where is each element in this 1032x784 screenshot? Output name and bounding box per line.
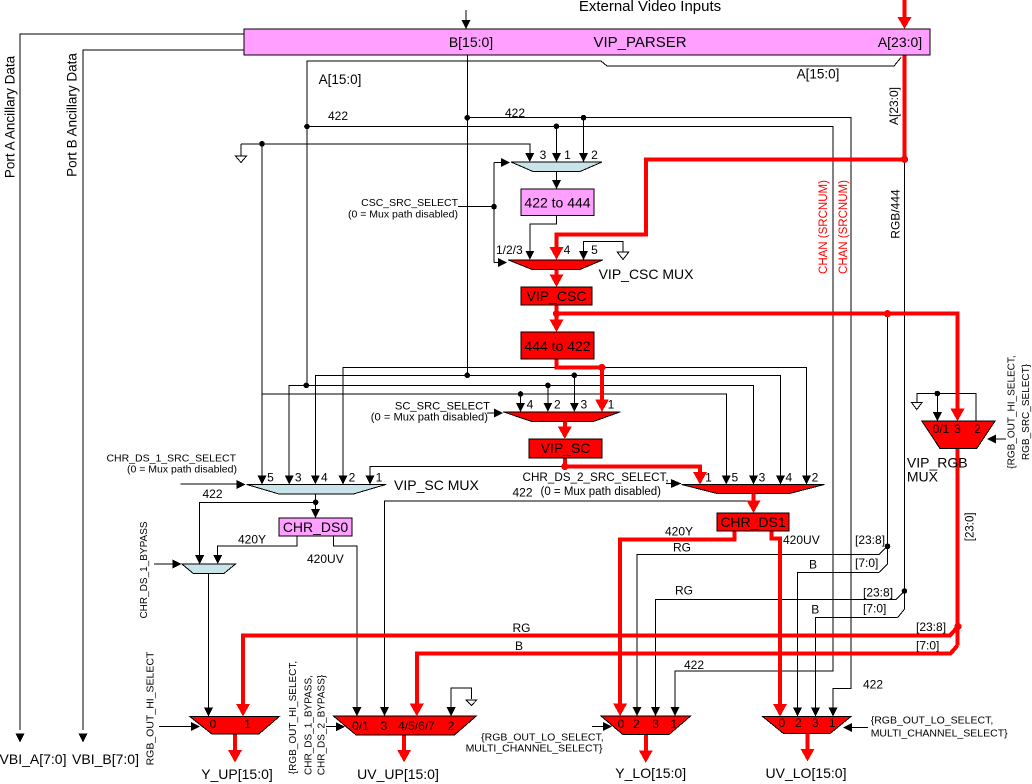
arrow UV_UP input 0/1 [352,707,361,716]
svg-text:(0 = Mux path disabled): (0 = Mux path disabled) [127,464,237,476]
block VIP_SC [529,439,602,458]
svg-text:CHR_DS_1_BYPASS: CHR_DS_1_BYPASS [139,521,150,618]
svg-text:VBI_B[7:0]: VBI_B[7:0] [72,751,139,767]
wire A[15:0] bus from parser [307,58,901,386]
wire VIP_CSC MUX input 5 ground bracket [584,242,624,252]
svg-text:2: 2 [591,148,598,162]
svg-text:RGB/444: RGB/444 [889,189,903,239]
wire External Video Input B into parser [465,10,467,21]
node ground line junction [259,141,265,147]
mux CHR_DS_2 source mux (red) [682,485,825,494]
svg-text:4/5/6/7: 4/5/6/7 [398,719,435,733]
node red parser junction [901,156,908,163]
svg-text:422: 422 [505,106,525,120]
wire RGB_OUT_HI_SELECT select line Y_UP [159,726,193,728]
svg-text:4: 4 [564,243,571,257]
svg-text:RG: RG [673,541,691,555]
svg-text:VBI_A[7:0]: VBI_A[7:0] [0,751,66,767]
arrow Y_LO input 1 [671,707,680,716]
wire red 444to422 output to SC mux input 1 [557,359,603,401]
arrow into parser top [462,20,471,29]
arrow UV_UP input 2 [447,707,456,716]
svg-text:444 to 422: 444 to 422 [524,338,590,354]
wire red UV_UP output [402,735,406,752]
svg-text:CSC_SRC_SELECT: CSC_SRC_SELECT [361,197,458,209]
mux UV_UP output mux [334,716,477,735]
wire L1 444to422 output line [343,368,807,477]
svg-text:MULTI_CHANNEL_SELECT}: MULTI_CHANNEL_SELECT} [466,743,603,755]
svg-text:0/1: 0/1 [933,422,950,436]
arrow red VIP_RGB input 3 [951,409,965,422]
arrow select CHR_DS_2 MUX [671,479,682,488]
svg-text:0: 0 [778,716,785,730]
svg-text:B: B [515,639,523,653]
block 444 to 422 [521,332,594,359]
svg-text:RG: RG [675,584,693,598]
svg-text:UV_UP[15:0]: UV_UP[15:0] [357,766,439,782]
block VIP_PARSER [244,29,930,55]
svg-text:3: 3 [652,717,659,731]
arrow SC mux input 4 [516,403,525,412]
wire RG [23:8] tap 2 diagonal [896,591,904,599]
svg-text:MULTI_CHANNEL_SELECT}: MULTI_CHANNEL_SELECT} [871,728,1008,740]
arrow VIP_SC MUX input 1 [366,475,375,484]
wire VIP_RGB input 0/1 stub [936,394,938,414]
arrow red Y_LO input 0 [613,704,627,717]
svg-text:422: 422 [512,486,532,500]
wire UV_UP select line [326,726,337,728]
wire CHR_DS_1_SRC_SELECT select line [181,483,237,485]
svg-text:B: B [809,558,817,572]
wire ground stub top left [240,144,242,156]
arrow bypass mux right input [213,555,222,564]
wire 422 tap of CHR_DS_2 MUX output to UV_UP input 3 [385,501,752,708]
node blue mux input1 junction [554,124,560,130]
wire 422 line from B bus [467,118,851,709]
wire branch L2 to SC mux input 3 [573,375,575,403]
svg-text:RG: RG [513,621,531,635]
mux SC source mux (red) [503,412,620,422]
svg-text:4: 4 [321,471,328,485]
wire disabled-path ground line to CSC input mux input 3 [241,144,530,154]
arrow red Y_UP output [228,750,242,763]
svg-text:(0 = Mux path disabled): (0 = Mux path disabled) [371,412,488,424]
ground at UV_UP input 2 [466,700,477,706]
wire Port A Ancillary Data [20,34,244,730]
wire RGB/444 vertical from parser junction [898,159,905,617]
wire branch to CSC input mux input 2 [583,118,585,155]
wire UV_LO select line [851,726,868,728]
mux CSC input mux (blue) [511,162,602,172]
wire red path to VIP_CSC MUX input 4 [557,159,905,249]
svg-text:B: B [811,603,819,617]
arrow select bypass mux [173,560,182,569]
wire red VIP_CSC output down [555,305,559,322]
svg-text:CHR_DS_1_BYPASS,: CHR_DS_1_BYPASS, [304,675,315,775]
arrow select UV_LO [843,723,852,732]
arrow UV_LO input 1 [829,708,838,717]
node red RGB out [23:8] junction [954,623,961,630]
arrow VIP_RGB input 0/1 [933,412,942,421]
svg-text:RGB_OUT_HI_SELECT: RGB_OUT_HI_SELECT [145,651,157,765]
node red VIP_SC out junction [561,463,568,470]
svg-text:3: 3 [954,422,961,436]
wire red Y_UP output [233,734,237,752]
node L2 B end junction [465,373,471,379]
svg-text:CHR_DS1: CHR_DS1 [720,514,786,530]
arrow VIP_SC MUX input 5 [258,475,267,484]
wire red 420Y from CHR_DS1 to Y_LO input 0 [620,531,734,706]
mux CHR_DS_1_BYPASS mux (blue) [182,564,235,574]
svg-text:5: 5 [267,471,274,485]
svg-text:1/2/3: 1/2/3 [496,243,523,257]
arrow CHR_DS_2 MUX input 4 [776,476,785,485]
node L3 SC in2 junction [545,383,551,389]
arrow red into VIP_CSC [550,275,564,288]
svg-text:VIP_CSC: VIP_CSC [527,288,587,304]
arrow Y_LO input 3 [651,707,660,716]
svg-text:VIP_SC: VIP_SC [541,440,591,456]
ground at VIP_RGB MUX [912,403,923,410]
svg-text:CHR_DS_2_BYPASS}: CHR_DS_2_BYPASS} [317,674,328,775]
wire red VIP_CSC output to VIP_RGB MUX input 3 [557,314,958,411]
node VIP_SC MUX out junction [313,500,319,506]
wire RG [23:8] tap diagonal [879,546,888,554]
arrow red CHR_DS_2 MUX input 1 [693,472,707,485]
wire L2 B 422 line [315,375,780,476]
wire 420Y from CHR_DS0 to bypass mux [218,536,297,556]
svg-text:422: 422 [684,658,704,672]
wire UV_UP input 2 ground bracket [451,688,472,708]
node RGB/444 tap junction [902,588,908,594]
arrow red VIP_CSC MUX input 4 [550,247,564,260]
svg-text:Y_LO[15:0]: Y_LO[15:0] [615,765,686,781]
svg-text:2: 2 [974,422,981,436]
mux UV_LO output mux [763,717,851,734]
svg-text:3: 3 [540,148,547,162]
svg-text:2: 2 [349,471,356,485]
node L4 SC in4 junction [518,391,524,397]
arrow red SC mux input 1 [595,399,609,412]
svg-text:4: 4 [527,398,534,412]
arrow CHR_DS_2 MUX input 3 [749,476,758,485]
mux VIP_SC MUX (blue) [246,484,386,494]
arrow blue mux input 2 [579,153,588,162]
wire VIP_RGB ground bracket to inputs 0/1 and 2 [917,394,976,422]
svg-text:0: 0 [618,717,625,731]
svg-text:3: 3 [381,719,388,733]
svg-text:CHAN (SRCNUM): CHAN (SRCNUM) [818,180,830,274]
wire red Y_LO output [644,735,648,753]
arrow SC mux input 3 [570,403,579,412]
arrow UV_LO input 2 [793,708,802,717]
svg-text:Y_UP[15:0]: Y_UP[15:0] [201,766,273,782]
svg-text:MUX: MUX [907,469,939,485]
svg-text:3: 3 [580,398,587,412]
wire L3 A 422 line [289,385,753,476]
block CHR_DS0 [279,518,352,536]
svg-text:2: 2 [554,398,561,412]
wire red B [7:0] line to UV_UP input 4/5/6/7 [417,646,958,707]
arrow select CSC to blue mux [501,158,510,167]
wire red RG [23:8] line to Y_UP input 1 [243,627,958,706]
svg-text:5: 5 [731,471,738,485]
wire red VIP_CSC MUX output [555,270,559,278]
svg-text:[23:8]: [23:8] [863,586,893,600]
svg-text:B[15:0]: B[15:0] [449,34,493,50]
svg-text:CHAN (SRCNUM): CHAN (SRCNUM) [838,180,850,274]
svg-text:2: 2 [448,719,455,733]
wire VIP_SC output to VIP_SC MUX input 1 [370,467,565,477]
wire VIP_RGB select stub [996,438,1006,440]
svg-text:{RGB_OUT_HI_SELECT,: {RGB_OUT_HI_SELECT, [1007,355,1018,468]
svg-text:[7:0]: [7:0] [863,602,886,616]
arrow blue mux input 1 [552,153,561,162]
node L2 SC in3 junction [572,373,578,379]
svg-text:1: 1 [608,398,615,412]
wire red CHR_DS_2 MUX output [752,494,756,504]
svg-text:A[23:0]: A[23:0] [878,34,922,50]
svg-text:3: 3 [295,471,302,485]
arrow red into 444to422 [550,320,564,333]
wire red SC mux output [563,421,567,429]
node RGB tap 1 junction [885,544,891,550]
node VIP_RGB 0/1 junction [935,391,941,397]
arrow red Y_UP input 1 [236,704,250,717]
svg-text:[23:8]: [23:8] [916,620,946,634]
svg-text:{RGB_OUT_HI_SELECT,: {RGB_OUT_HI_SELECT, [288,661,299,774]
arrow SC mux input 2 [543,403,552,412]
svg-text:1: 1 [376,471,383,485]
svg-text:Port A Ancillary Data: Port A Ancillary Data [2,55,17,178]
wire CSC_SRC_SELECT select bracket [458,206,494,208]
arrow VBI_B [79,733,88,742]
wire CSC input mux output into 422to444 [556,172,558,182]
wire RG line to Y_LO input 2 [637,555,879,708]
node red VIP_CSC out junction [553,310,560,317]
node red VIP_RGB branch junction [884,310,891,317]
arrow Y_UP input 0 [204,707,213,716]
arrow VIP_SC MUX input 2 [339,475,348,484]
svg-text:CHR_DS_2_SRC_SELECT,: CHR_DS_2_SRC_SELECT, [523,471,669,484]
svg-text:1: 1 [564,148,571,162]
svg-text:VIP_CSC MUX: VIP_CSC MUX [599,266,695,282]
wire red A[23:0] from parser down [903,55,907,159]
svg-text:{RGB_OUT_LO_SELECT,: {RGB_OUT_LO_SELECT, [871,715,994,727]
arrow select VIP_SC MUX [237,480,246,489]
wire 422 line from A bus [307,127,833,709]
svg-text:2: 2 [795,716,802,730]
arrow red UV_UP input 4/5/6/7 [410,704,424,717]
wire CHR_DS_2_SRC_SELECT select stub [666,483,672,485]
svg-text:420Y: 420Y [665,525,693,539]
svg-text:CHR_DS0: CHR_DS0 [283,519,349,535]
wire disabled-path vertical to VIP_SC MUX input 5 [261,144,263,476]
arrow VIP_SC MUX input 3 [285,475,294,484]
arrow select UV_UP [336,722,345,731]
svg-text:1: 1 [671,717,678,731]
svg-text:2: 2 [633,717,640,731]
arrow red Y_LO output [639,750,653,763]
ground at VIP_CSC MUX input 5 [617,252,629,260]
arrow red UV_UP output [397,750,411,763]
svg-text:(0 = Mux path disabled): (0 = Mux path disabled) [348,209,458,221]
svg-text:[7:0]: [7:0] [855,556,878,570]
arrow into 422to444 [552,180,561,189]
arrow VBI_A [16,733,25,742]
svg-text:422: 422 [328,109,348,123]
wire branch to CSC input mux input 1 [555,127,557,155]
arrow select Y_LO [603,722,612,731]
arrow select Y_UP [191,722,200,731]
wire Port B Ancillary Data [83,50,244,730]
arrow blue mux input 3 [525,153,534,162]
arrow CHR_DS_2 MUX input 2 [802,476,811,485]
wire red A[23:0] into parser [903,0,907,22]
svg-text:[23:8]: [23:8] [855,533,885,547]
wire Y_LO select line [592,726,604,728]
wire L4 disabled line to CHR_DS_2 MUX input 5 [262,394,726,476]
mux Y_LO output mux [601,716,691,735]
block 422 to 444 [521,189,594,216]
svg-text:4: 4 [786,471,793,485]
arrow UV_UP input 3 [380,707,389,716]
svg-text:5: 5 [591,243,598,257]
wire CHR_DS_1_BYPASS select line [154,563,173,565]
node red 444to422 out junction [598,364,605,371]
svg-text:A[15:0]: A[15:0] [319,72,362,87]
wire RGB/CSC output vertical x=887.5 [879,314,888,573]
svg-text:UV_LO[15:0]: UV_LO[15:0] [766,765,847,781]
svg-text:External Video Inputs: External Video Inputs [579,0,721,15]
arrow UV_LO input 3 [811,708,820,717]
svg-text:0/1: 0/1 [352,719,369,733]
node L3 A end junction [304,383,310,389]
node CSC select junction [491,204,497,210]
arrow select VIP_RGB MUX [987,435,996,444]
mux Y_UP output mux [190,716,280,734]
svg-text:420UV: 420UV [307,552,344,566]
wire 420UV from CHR_DS0 to UV_UP input 0/1 [334,536,357,708]
svg-text:RGB_SRC_SELECT}: RGB_SRC_SELECT} [1021,363,1032,460]
wire red VIP_RGB output [23:0] [956,449,960,646]
wire B line 2 to UV_LO input 3 [816,618,898,708]
wire red 420UV from CHR_DS1 to UV_LO input 0 [772,531,781,706]
node parser B 422 junction [465,115,471,121]
wire branch L3 to SC mux input 2 [547,385,549,403]
wire 422to444 output to VIP_CSC MUX input 1/2/3 [530,216,557,252]
wire B line to UV_LO input 2 [797,573,878,709]
wire red UV_LO output [806,734,810,751]
svg-text:1: 1 [829,716,836,730]
arrow VIP_SC MUX input 4 [311,475,320,484]
svg-text:VIP_PARSER: VIP_PARSER [593,34,686,51]
svg-text:1: 1 [705,471,712,485]
svg-text:3: 3 [812,716,819,730]
wire 422 branch to bypass mux left input [200,502,316,556]
svg-text:2: 2 [812,471,819,485]
mux VIP_CSC MUX (red) [508,260,603,270]
wire branch L4 to SC mux input 4 [520,394,522,404]
block CHR_DS1 [717,513,789,531]
wire bypass mux output to Y_UP input 0 [208,574,210,708]
svg-text:420UV: 420UV [783,533,820,547]
mux VIP_RGB MUX [922,421,995,448]
arrow red UV_LO input 0 [773,704,787,717]
svg-text:[7:0]: [7:0] [916,639,939,653]
wire red VIP_SC output to CHR_DS_2 MUX input 1 [565,458,700,474]
ground top left [236,156,247,163]
arrow red into CHR_DS1 [747,501,761,514]
svg-text:A[15:0]: A[15:0] [797,67,840,82]
svg-text:3: 3 [759,471,766,485]
svg-text:422: 422 [863,678,883,692]
wire B[15:0] bus from parser [466,55,468,375]
svg-text:Port B Ancillary Data: Port B Ancillary Data [64,53,79,177]
wire SC_SRC_SELECT select stub [487,412,495,414]
arrow red UV_LO output [801,749,815,762]
svg-text:[23:0]: [23:0] [965,512,977,541]
arrow select CSC to VIP_CSC MUX [498,258,507,267]
wire RG line 2 to Y_LO input 3 [656,599,897,708]
arrow bypass mux left input [195,555,204,564]
arrow red into parser [898,17,912,29]
svg-text:VIP_SC MUX: VIP_SC MUX [394,477,479,493]
svg-text:420Y: 420Y [238,533,266,547]
arrow VIP_CSC MUX input 1/2/3 [525,251,534,260]
svg-text:1: 1 [244,717,251,731]
arrow into CHR_DS0 [311,509,320,518]
block VIP_CSC [521,287,592,305]
svg-text:0: 0 [210,717,217,731]
svg-text:A[23:0]: A[23:0] [887,87,901,125]
svg-text:422: 422 [202,487,222,501]
arrow VIP_CSC MUX input 5 [579,251,588,260]
wire VIP_SC MUX output into CHR_DS0 [315,494,317,510]
svg-text:422 to 444: 422 to 444 [524,195,590,211]
node blue mux input2 junction [581,115,587,121]
arrow red into VIP_SC [558,427,572,440]
arrow CHR_DS_2 MUX input 5 [722,476,731,485]
svg-text:(0 = Mux path disabled): (0 = Mux path disabled) [541,486,662,498]
node A 422 junction [304,124,310,130]
arrow select SC mux [494,409,503,418]
arrow Y_LO input 2 [633,707,642,716]
